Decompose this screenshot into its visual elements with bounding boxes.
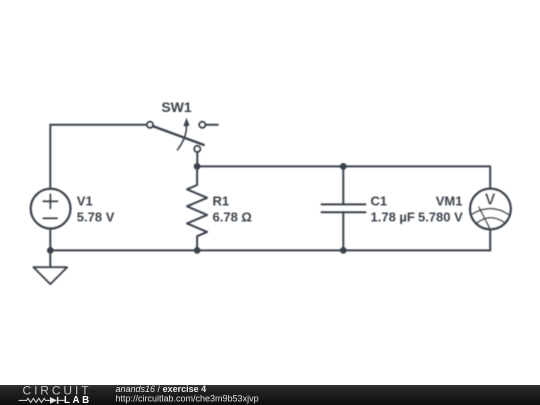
svg-text:C1: C1 [371,194,388,209]
node dot R1 bottom [194,247,201,254]
svg-text:VM1: VM1 [436,194,463,209]
footer bar [0,385,540,405]
voltmeter VM1 [470,189,511,230]
resistor R1 [187,166,207,250]
svg-text:SW1: SW1 [161,99,192,115]
svg-text:5.78 V: 5.78 V [77,210,115,225]
wire V1 top vertical [49,125,51,188]
wire top-left horizontal to SW1 [50,124,147,126]
svg-text:5.780 V: 5.780 V [418,210,463,225]
label VM1 [436,194,463,209]
label R1 [213,194,230,209]
wire bottom rail [50,249,490,251]
svg-text:6.78 Ω: 6.78 Ω [213,210,252,225]
voltage source V1 [31,189,71,229]
value 6.78 Ohm [213,210,252,225]
svg-text:1.78 µF: 1.78 µF [371,210,415,225]
label C1 [371,194,388,209]
CircuitLab logo CIRCUIT [23,384,92,398]
node A [194,163,201,170]
capacitor C1 [322,166,366,250]
node dot C1 top [340,163,347,170]
svg-text:http://circuitlab.com/che3m9b5: http://circuitlab.com/che3m9b53xjvp [116,393,259,403]
svg-text:V1: V1 [77,194,93,209]
value 5.780 V [418,210,463,225]
label V1 [77,194,93,209]
node dot V1 bottom [47,247,54,254]
footer url [116,393,259,403]
wire SW1 to node A [196,152,198,167]
svg-text:anands16 / exercise 4: anands16 / exercise 4 [116,384,207,394]
ground [34,250,68,284]
svg-text:R1: R1 [213,194,230,209]
wire VM1 top vertical [489,166,491,188]
footer title anands16 / exercise 4 [116,384,207,394]
svg-text:V: V [485,191,496,208]
switch SW1 [147,118,218,152]
value 5.78 V [77,210,115,225]
svg-text:LAB: LAB [64,395,92,405]
CircuitLab logo resistor-diode-LAB [19,395,92,405]
wire top rail [197,165,490,167]
wire V1 bottom vertical [49,229,51,251]
value 1.78 uF [371,210,415,225]
label SW1 [161,99,192,115]
node dot C1 bottom [340,247,347,254]
wire VM1 bottom vertical [489,230,491,251]
